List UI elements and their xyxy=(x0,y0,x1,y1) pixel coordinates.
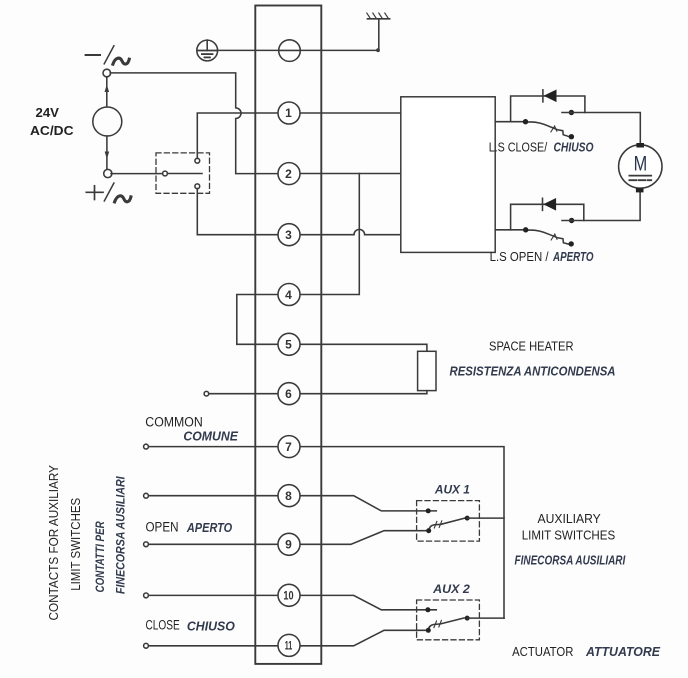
minus label xyxy=(86,54,100,56)
wire terminal 4 riser to T2 wire xyxy=(300,174,359,295)
terminal 9 xyxy=(278,533,300,555)
wire terminal 11 left xyxy=(148,645,278,647)
svg-text:LIMIT SWITCHES: LIMIT SWITCHES xyxy=(68,498,83,591)
AUX1 node dots xyxy=(426,508,431,513)
node dots LS open xyxy=(523,227,528,232)
wire terminal 10 left xyxy=(148,594,278,596)
svg-text:6: 6 xyxy=(285,387,292,401)
terminal 8 xyxy=(278,485,300,507)
selector switch S1 dashed enclosure xyxy=(156,153,210,193)
svg-text:M: M xyxy=(634,151,648,175)
wire terminal 9 left xyxy=(148,543,278,545)
terminal 3 xyxy=(278,224,300,246)
wire terminal 9 to AUX1 bottom contact xyxy=(300,531,426,545)
AUX2 blade xyxy=(428,618,464,630)
svg-text:8: 8 xyxy=(285,489,292,503)
terminal 6 xyxy=(278,383,300,405)
svg-text:1: 1 xyxy=(285,106,292,120)
svg-text:AUXILIARY: AUXILIARY xyxy=(538,511,602,526)
svg-text:COMMON: COMMON xyxy=(145,414,203,429)
svg-text:AUX 2: AUX 2 xyxy=(432,582,470,596)
svg-text:L.S CLOSE/: L.S CLOSE/ xyxy=(489,141,548,155)
diode D2 branch xyxy=(511,204,584,230)
svg-text:10: 10 xyxy=(283,589,293,603)
AUX2 dashed enclosure xyxy=(417,600,480,640)
svg-text:ACTUATOR: ACTUATOR xyxy=(512,644,573,659)
jumper terminal 4 to terminal 5 xyxy=(237,295,279,345)
svg-text:SPACE HEATER: SPACE HEATER xyxy=(489,340,574,354)
node terminal 8 left xyxy=(144,493,149,498)
terminal 4 xyxy=(278,284,300,306)
node terminal 10 left xyxy=(144,593,149,598)
switch common contact xyxy=(163,171,168,176)
wire terminal 3 to control box (hops over T4 riser) xyxy=(300,229,401,234)
wire plus to switch common xyxy=(111,173,163,175)
svg-text:ATTUATORE: ATTUATORE xyxy=(585,644,660,659)
wire terminal 7 to aux common bus xyxy=(300,447,504,619)
terminal strip xyxy=(255,6,321,664)
wire earth to chassis ground xyxy=(218,19,379,51)
wire switch bottom contact to terminal 3 xyxy=(197,189,278,235)
slash plus xyxy=(104,183,114,201)
chassis ground xyxy=(367,13,390,19)
svg-text:APERTO: APERTO xyxy=(552,250,593,264)
arrow up on source lead xyxy=(106,78,108,107)
LS open switch contact blade xyxy=(526,230,569,244)
minus terminal node xyxy=(103,69,111,77)
terminal 7 xyxy=(278,436,300,458)
slash minus xyxy=(104,46,114,64)
protective earth symbol PE xyxy=(197,40,218,61)
LS close actuator chevron xyxy=(551,126,557,132)
svg-text:CLOSE: CLOSE xyxy=(146,618,180,633)
wire switch top contact to terminal 1 (hopped by minus wire) xyxy=(197,113,278,158)
svg-text:RESISTENZA ANTICONDENSA: RESISTENZA ANTICONDENSA xyxy=(450,364,616,378)
wire terminal 8 left xyxy=(148,495,278,497)
svg-text:FINECORSA AUSILIARI: FINECORSA AUSILIARI xyxy=(116,476,128,594)
switch top contact xyxy=(195,158,200,163)
svg-text:4: 4 xyxy=(285,288,292,302)
svg-text:3: 3 xyxy=(285,228,292,242)
LS open actuator chevron xyxy=(551,234,557,240)
switch blade xyxy=(167,173,202,175)
svg-text:APERTO: APERTO xyxy=(186,521,232,535)
control box U1 xyxy=(401,97,495,253)
junction chassis corner xyxy=(376,48,380,52)
svg-text:7: 7 xyxy=(285,440,292,454)
AUX1 blade xyxy=(429,518,465,531)
plus terminal node xyxy=(104,169,112,177)
wire terminal 10 to AUX2 top contact xyxy=(300,595,436,609)
terminal 10 xyxy=(278,584,300,606)
wire LS open to motor bottom xyxy=(562,192,640,221)
svg-text:CHIUSO: CHIUSO xyxy=(554,141,594,155)
24V AC/DC source G1 xyxy=(93,107,122,136)
AC tilde top xyxy=(113,58,129,64)
svg-text:CONTACTS FOR AUXILIARY: CONTACTS FOR AUXILIARY xyxy=(46,465,61,621)
wire AUX2 to common bus xyxy=(467,617,504,619)
wire terminal 5 to heater xyxy=(300,344,427,351)
switch bottom contact xyxy=(195,184,200,189)
svg-text:5: 5 xyxy=(285,338,292,352)
svg-text:11: 11 xyxy=(285,639,293,653)
plus label xyxy=(86,186,103,200)
wire terminal 11 to AUX2 bottom contact xyxy=(300,630,426,646)
terminal PE top (unnumbered) xyxy=(279,40,301,62)
node dots LS close xyxy=(523,119,528,124)
diode D1 xyxy=(543,90,557,103)
svg-text:AC/DC: AC/DC xyxy=(30,123,74,138)
wire heater to terminal 6 xyxy=(300,391,427,394)
svg-text:L.S OPEN /: L.S OPEN / xyxy=(490,250,549,264)
wire terminal 6 stub left xyxy=(209,393,279,395)
LS close switch contact blade xyxy=(526,122,570,137)
svg-text:CHIUSO: CHIUSO xyxy=(187,620,235,634)
AC tilde bottom xyxy=(115,196,131,202)
wire minus to terminal 2 (hops over T1 wire) xyxy=(110,73,278,174)
wire LS close to motor top xyxy=(562,113,640,144)
svg-text:COMUNE: COMUNE xyxy=(183,430,238,444)
terminal 5 xyxy=(278,333,300,355)
svg-text:CONTATTI PER: CONTATTI PER xyxy=(95,521,107,593)
AUX2 node dots xyxy=(425,607,430,612)
motor M1 xyxy=(619,143,662,192)
terminal numbers xyxy=(283,106,293,653)
svg-text:AUX 1: AUX 1 xyxy=(434,482,470,496)
svg-text:LIMIT SWITCHES: LIMIT SWITCHES xyxy=(522,528,616,543)
svg-text:FINECORSA AUSILIARI: FINECORSA AUSILIARI xyxy=(515,554,626,568)
wire AUX1 to common bus xyxy=(467,517,504,519)
arrow down on source lead xyxy=(106,136,108,170)
svg-text:24V: 24V xyxy=(36,105,60,120)
terminal 2 xyxy=(278,163,300,185)
svg-text:2: 2 xyxy=(285,167,292,181)
wire box to LS open node xyxy=(495,229,526,231)
AUX2 chevron ticks xyxy=(434,621,437,628)
space heater resistor R1 xyxy=(418,351,436,390)
diode D1 branch xyxy=(511,96,585,122)
AUX1 chevron ticks xyxy=(434,521,437,528)
wire box to LS close node xyxy=(495,121,525,123)
node terminal 9 left xyxy=(144,542,149,547)
node terminal 6 stub xyxy=(204,391,209,396)
wire terminal 1 to control box xyxy=(300,112,401,114)
terminal 1 xyxy=(278,102,300,124)
AUX1 dashed enclosure xyxy=(417,501,480,541)
svg-text:OPEN: OPEN xyxy=(146,519,179,534)
svg-text:9: 9 xyxy=(285,538,292,552)
wire terminal 2 to control box xyxy=(300,173,401,175)
terminal 11 xyxy=(278,634,300,656)
node common left xyxy=(144,444,149,449)
node terminal 11 left xyxy=(144,643,149,648)
wire terminal 8 to AUX1 top contact xyxy=(300,496,436,511)
diode D2 xyxy=(543,198,557,211)
wire terminal 7 COMMON left xyxy=(148,446,278,448)
